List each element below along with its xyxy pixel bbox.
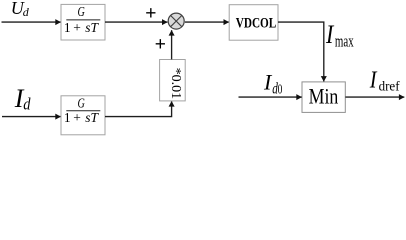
node Id label bbox=[14, 84, 31, 113]
svg-text:+: + bbox=[155, 33, 166, 55]
block VDCOL bbox=[229, 5, 278, 41]
block Min bbox=[302, 82, 345, 113]
block G/(1+sT) lower bbox=[61, 95, 105, 135]
svg-text:max: max bbox=[335, 34, 354, 52]
svg-text:0: 0 bbox=[278, 82, 283, 97]
svg-text:G: G bbox=[78, 95, 85, 111]
node Id0 label bbox=[263, 69, 282, 97]
wire multiplier to VDCOL bbox=[185, 21, 229, 23]
svg-text:Min: Min bbox=[309, 85, 339, 109]
multiplier circle bbox=[168, 13, 184, 29]
wire block2 to 0.01 block (corner up) bbox=[105, 101, 172, 116]
wire Id0 into Min bbox=[239, 96, 302, 98]
wire block1 to multiplier bbox=[105, 21, 167, 23]
svg-text:I: I bbox=[325, 22, 334, 50]
svg-text:sT: sT bbox=[85, 20, 99, 35]
wire Min output bbox=[345, 96, 404, 98]
wire 0.01 block to multiplier bbox=[171, 30, 173, 59]
svg-text:d: d bbox=[23, 95, 30, 113]
svg-text:d: d bbox=[23, 5, 30, 19]
wire VDCOL to Min (corner) bbox=[278, 22, 324, 81]
svg-text:+: + bbox=[145, 3, 156, 25]
svg-text:*0.01: *0.01 bbox=[168, 68, 183, 100]
svg-text:VDCOL: VDCOL bbox=[236, 14, 277, 31]
svg-text:sT: sT bbox=[85, 110, 99, 125]
wire Ud input bbox=[2, 21, 61, 23]
block *0.01 bbox=[160, 60, 186, 101]
svg-text:1: 1 bbox=[64, 110, 71, 125]
svg-text:+: + bbox=[73, 20, 81, 35]
block G/(1+sT) upper bbox=[61, 3, 105, 40]
svg-text:dref: dref bbox=[379, 78, 400, 94]
node Imax label bbox=[325, 22, 354, 52]
node Idref label bbox=[369, 66, 400, 94]
wire Id input bbox=[2, 116, 61, 118]
node Ud label bbox=[11, 0, 30, 19]
svg-text:+: + bbox=[73, 110, 81, 125]
svg-text:G: G bbox=[78, 3, 85, 19]
svg-text:1: 1 bbox=[64, 20, 71, 35]
